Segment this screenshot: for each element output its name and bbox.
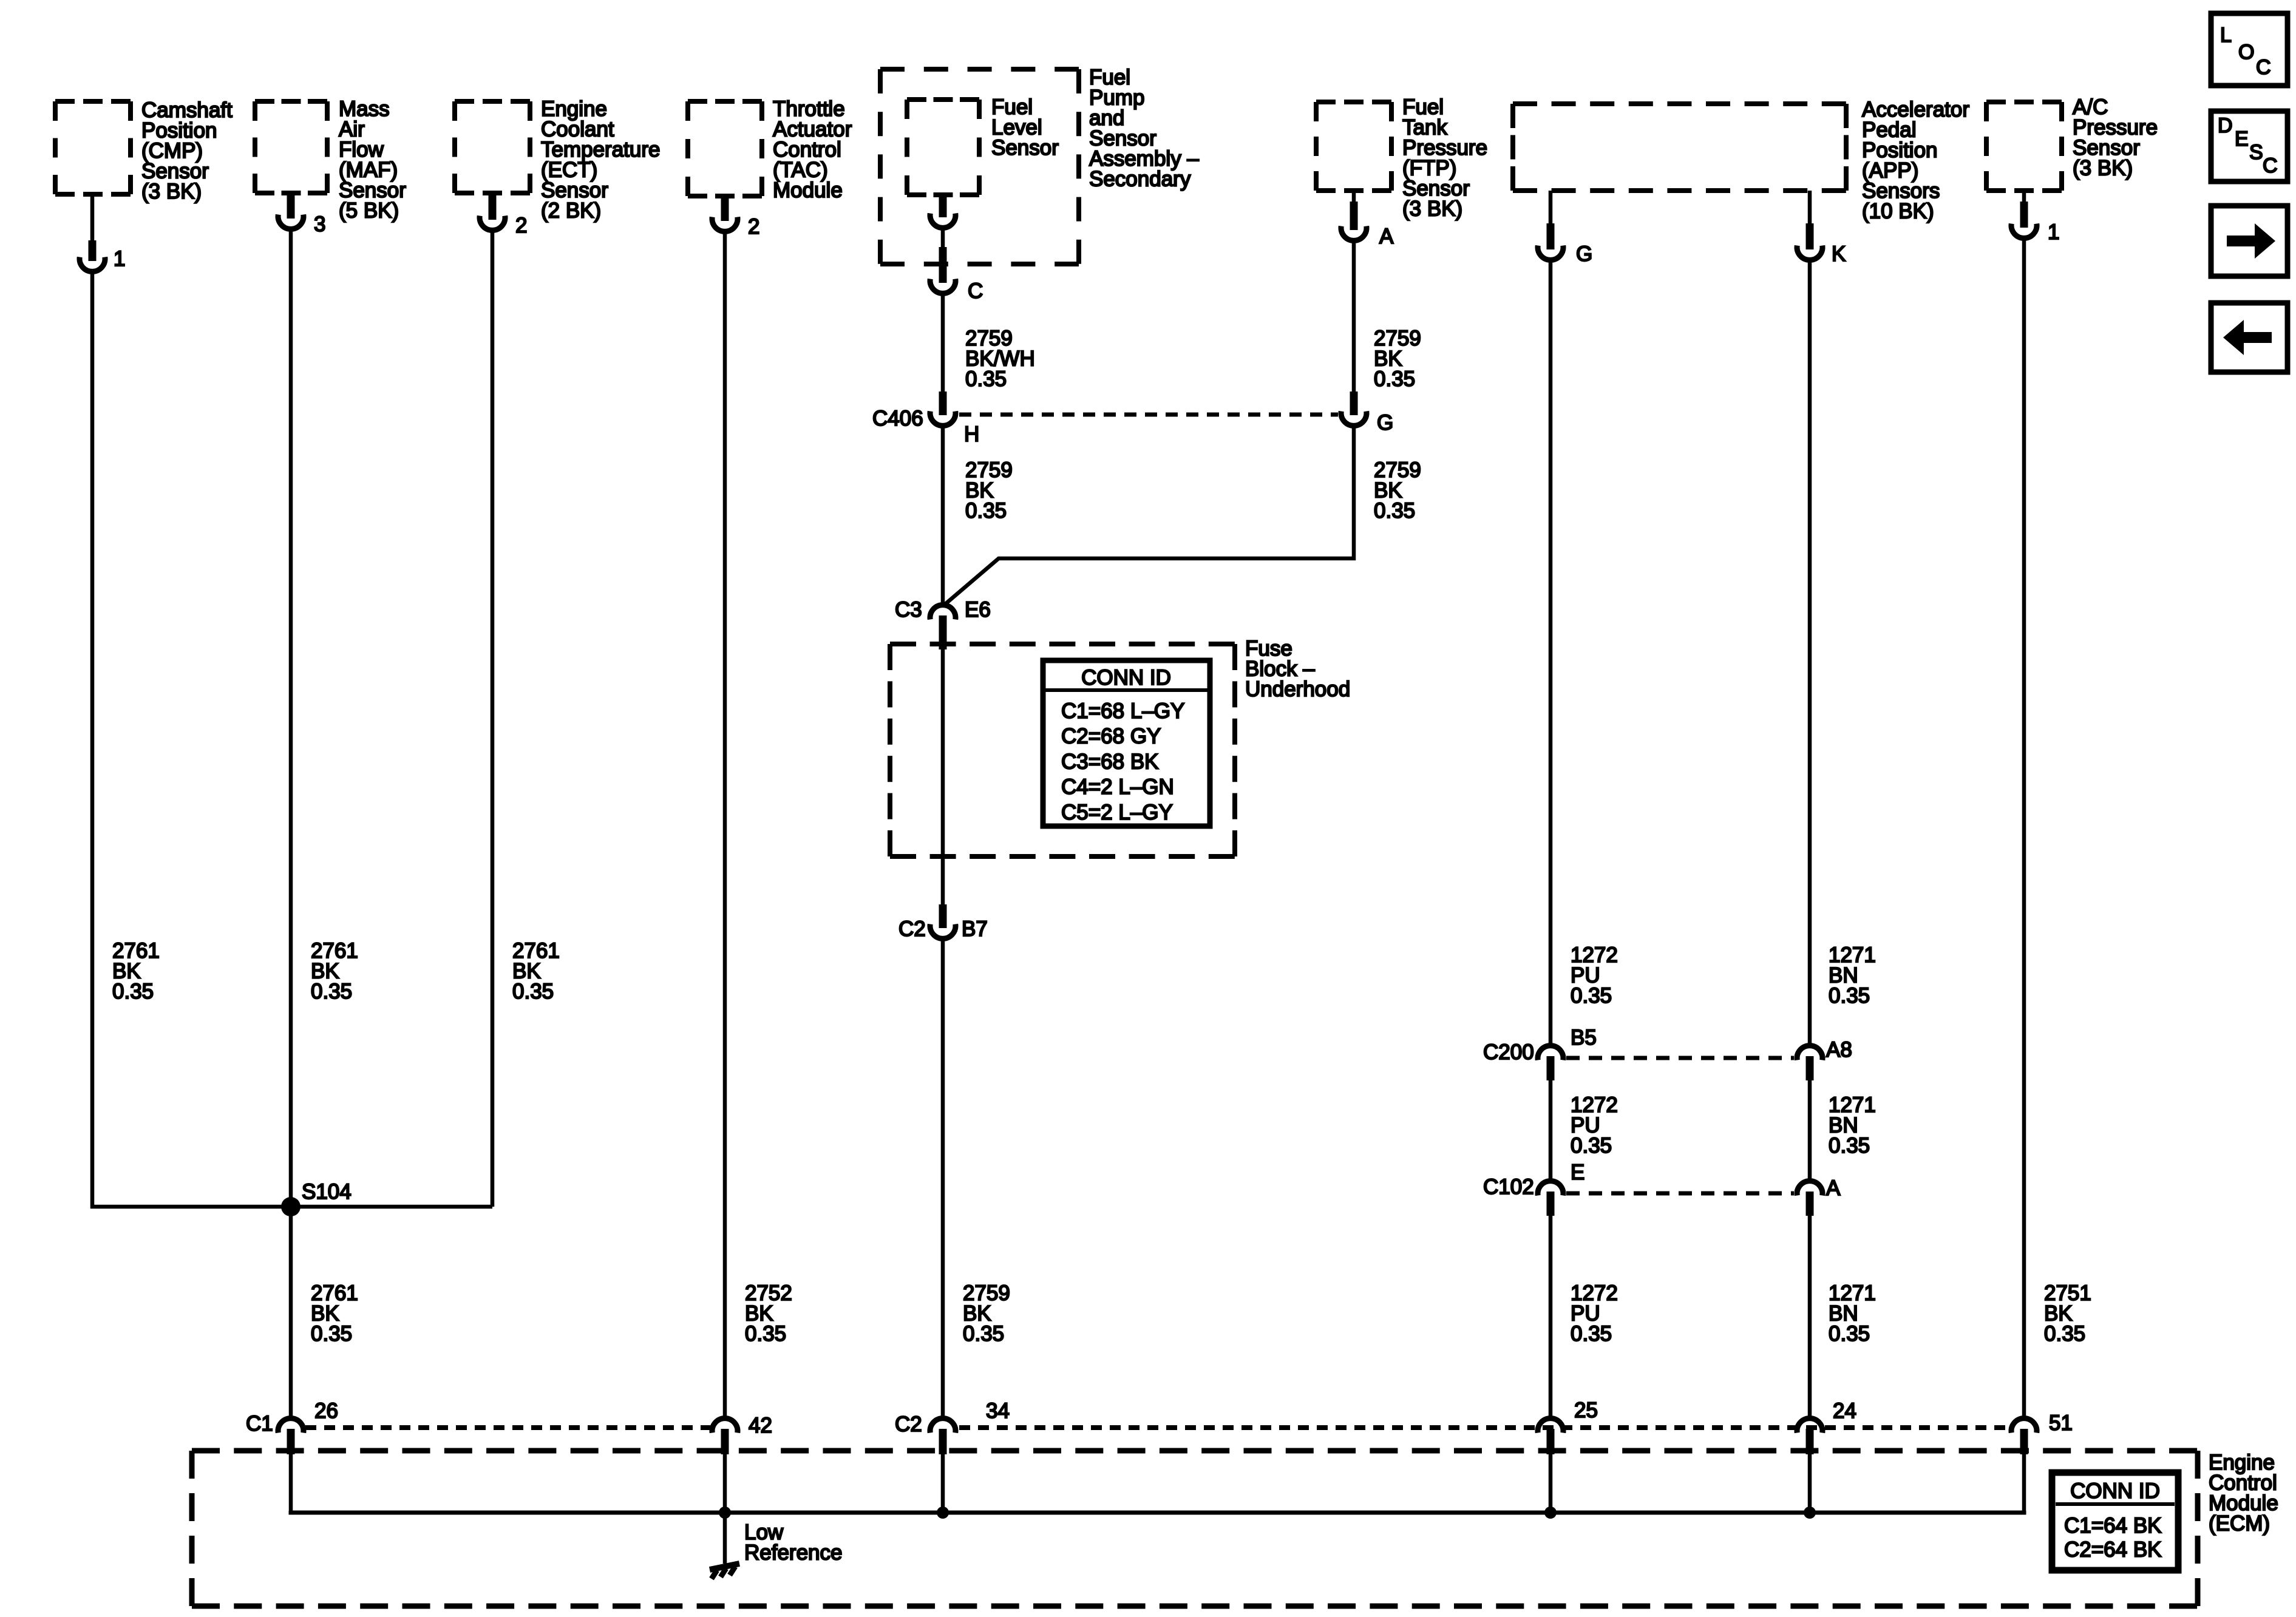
- inline connector line C1 (dotted, ECM): [305, 1425, 710, 1430]
- label: A/C Pressure Sensor (3 BK): [2073, 95, 2158, 180]
- wire label: 2759 BK 0.35 (below C406 G): [1374, 458, 1421, 523]
- pin number 2 (ECT): [515, 214, 527, 237]
- svg-text:34: 34: [986, 1399, 1010, 1423]
- wire: 2759 BK/WH from pin C to C406 pin H: [941, 294, 945, 394]
- svg-text:A: A: [1379, 225, 1394, 248]
- svg-text:0.35: 0.35: [963, 1322, 1004, 1346]
- svg-text:0.35: 0.35: [311, 1322, 352, 1346]
- wire: 1272 PU from C200 to C102 (G lane): [1549, 1080, 1553, 1182]
- connector C200 pin B5 terminal: [1538, 1046, 1563, 1080]
- label: Engine Coolant Temperature (ECT) Sensor (2 BK): [541, 97, 660, 223]
- svg-text:Underhood: Underhood: [1245, 677, 1350, 701]
- wire: 1271 BN from C102 to ECM pin 24: [1808, 1216, 1812, 1419]
- connector terminal: APP pin G: [1538, 191, 1563, 260]
- wire label: 2761 BK 0.35 (CMP upper): [112, 939, 160, 1003]
- svg-text:C: C: [968, 279, 983, 303]
- svg-text:0.35: 0.35: [1374, 367, 1415, 391]
- connector terminal: ECM C2 pin 51: [2011, 1419, 2037, 1454]
- svg-text:C2=64 BK: C2=64 BK: [2064, 1538, 2162, 1562]
- svg-text:0.35: 0.35: [1829, 984, 1870, 1008]
- connector C406 pin H terminal: [930, 392, 956, 425]
- svg-text:1: 1: [2048, 220, 2059, 244]
- svg-text:0.35: 0.35: [512, 980, 554, 1003]
- svg-text:2: 2: [515, 214, 527, 237]
- wire: 2761 BK from MAF pin 3 through S104 to ECM pin 26: [289, 229, 293, 1419]
- svg-text:Reference: Reference: [744, 1541, 842, 1565]
- svg-text:C200: C200: [1483, 1040, 1534, 1064]
- pin number 1 (CMP): [114, 247, 125, 271]
- wire label: 1272 PU 0.35 (middle): [1571, 1093, 1618, 1158]
- junction dot: bus at pin 34 lane: [937, 1507, 949, 1519]
- connector terminal: ECM C2 pin 25: [1538, 1419, 1563, 1454]
- pin letter G (APP): [1576, 242, 1592, 266]
- svg-text:24: 24: [1833, 1399, 1856, 1423]
- component box: Fuse Block - Underhood: [890, 644, 1235, 856]
- pin letter K (APP): [1832, 242, 1846, 266]
- wire label: 2759 BK 0.35 (lower): [963, 1281, 1010, 1346]
- wire: 2761 BK from ECT pin 2 to splice S104: [491, 231, 495, 1207]
- wire: 2761 BK from CMP pin 1 to splice S104: [92, 272, 492, 1207]
- svg-text:H: H: [964, 422, 979, 446]
- icon box: DESC: [2211, 111, 2288, 181]
- wire: 1272 PU from APP G to C200 B5: [1549, 260, 1553, 1047]
- junction dot: bus at pin 25 lane: [1544, 1507, 1557, 1519]
- wire: 1272 PU from C102 to ECM pin 25: [1549, 1216, 1553, 1419]
- wire label: 1271 BN 0.35 (lower): [1829, 1281, 1876, 1346]
- label: C200: [1483, 1040, 1534, 1064]
- label: C1 (ECM): [246, 1412, 273, 1436]
- wire: ECM pin 42 to internal bus: [723, 1454, 727, 1513]
- wire label: 2751 BK 0.35: [2044, 1281, 2091, 1346]
- label: S104: [302, 1180, 352, 1204]
- label: Fuse Block - Underhood: [1245, 637, 1350, 701]
- wire label: 2761 BK 0.35 (ECT upper): [512, 939, 560, 1003]
- table: fuse block CONN ID box: [1043, 660, 1210, 826]
- label: Throttle Actuator Control (TAC) Module: [773, 97, 852, 202]
- svg-text:(2 BK): (2 BK): [541, 199, 601, 223]
- connector terminal: TAC pin 2: [712, 197, 738, 231]
- pin letter C (assembly): [968, 279, 983, 303]
- svg-text:0.35: 0.35: [1571, 1322, 1612, 1346]
- svg-text:0.35: 0.35: [965, 499, 1007, 523]
- connector terminal: ECM C2 pin 34: [930, 1419, 956, 1454]
- svg-text:C1=68 L–GY: C1=68 L–GY: [1061, 699, 1184, 723]
- splice S104 junction dot: [281, 1197, 301, 1216]
- svg-text:C5=2 L–GY: C5=2 L–GY: [1061, 801, 1173, 824]
- pin E6 (fuse block): [965, 598, 991, 622]
- connector terminal: ECM C1 pin 42: [712, 1419, 738, 1454]
- label: C2 (ECM): [895, 1412, 922, 1436]
- svg-text:(3 BK): (3 BK): [141, 180, 202, 203]
- pin E (C102): [1571, 1161, 1584, 1184]
- svg-text:B5: B5: [1571, 1026, 1597, 1049]
- svg-text:(3 BK): (3 BK): [1402, 197, 1462, 221]
- svg-text:O: O: [2238, 41, 2254, 64]
- wire label: 1272 PU 0.35 (upper): [1571, 943, 1618, 1008]
- svg-text:0.35: 0.35: [311, 980, 352, 1003]
- inline connector line C200 (dashed): [1566, 1056, 1794, 1060]
- wire: fuel level sensor to assembly connector C: [941, 228, 945, 247]
- svg-text:26: 26: [314, 1399, 338, 1423]
- component box: Engine Coolant Temperature (ECT) Sensor: [455, 101, 530, 193]
- wire: 1271 BN from APP K to C200 A8: [1808, 260, 1812, 1047]
- pin letter A (FTP): [1379, 225, 1394, 248]
- svg-text:CONN ID: CONN ID: [1081, 666, 1171, 690]
- svg-text:0.35: 0.35: [112, 980, 154, 1003]
- svg-text:S: S: [2249, 141, 2263, 164]
- pin number 24 (ECM): [1833, 1399, 1856, 1423]
- table header: CONN ID (fuse block): [1081, 666, 1171, 690]
- wire: 2752 BK from TAC pin 2 to ECM pin 42: [723, 232, 727, 1419]
- connector terminal: A/C pressure sensor pin 1: [2011, 191, 2037, 238]
- table: ECM CONN ID box: [2052, 1473, 2178, 1570]
- label: Fuel Level Sensor: [991, 95, 1059, 160]
- svg-text:0.35: 0.35: [1571, 984, 1612, 1008]
- svg-text:0.35: 0.35: [965, 367, 1007, 391]
- label: Fuel Tank Pressure (FTP) Sensor (3 BK): [1402, 95, 1487, 221]
- wire: ECM pin 24 to internal bus: [1808, 1454, 1812, 1513]
- component box: Fuel Level Sensor (inner): [907, 100, 979, 195]
- svg-text:0.35: 0.35: [1829, 1134, 1870, 1158]
- svg-text:E: E: [1571, 1161, 1584, 1184]
- svg-text:C1: C1: [246, 1412, 273, 1436]
- pin B5 (C200): [1571, 1026, 1597, 1049]
- inline connector line C2 (dotted, ECM): [959, 1425, 2009, 1430]
- icon box: back arrow: [2211, 303, 2288, 372]
- component box: Engine Control Module (ECM): [192, 1451, 2198, 1606]
- component box: Mass Air Flow (MAF) Sensor: [255, 101, 327, 193]
- component box: Throttle Actuator Control (TAC) Module: [688, 101, 762, 196]
- pin number 1 (A/C): [2048, 220, 2059, 244]
- wire label: 1272 PU 0.35 (lower): [1571, 1281, 1618, 1346]
- svg-text:42: 42: [749, 1414, 772, 1437]
- svg-text:K: K: [1832, 242, 1846, 266]
- icon box: LOC: [2211, 13, 2288, 86]
- connector terminal: MAF pin 3: [278, 194, 304, 229]
- pin A (C102): [1826, 1176, 1841, 1200]
- wire: ECM pin 34 to internal bus: [941, 1454, 945, 1513]
- wire label: 1271 BN 0.35 (middle): [1829, 1093, 1876, 1158]
- svg-text:C2=68 GY: C2=68 GY: [1061, 725, 1161, 748]
- svg-text:A8: A8: [1826, 1038, 1852, 1062]
- component box: Camshaft Position (CMP) Sensor: [55, 101, 131, 194]
- inline connector line C406 (dashed): [959, 413, 1338, 417]
- svg-text:0.35: 0.35: [1374, 499, 1415, 523]
- wire: 1271 BN from C200 to C102 (K lane): [1808, 1080, 1812, 1182]
- connector terminal: FTP pin A: [1341, 191, 1367, 240]
- pin A8 (C200): [1826, 1038, 1852, 1062]
- label: C2 (fuse block): [898, 917, 926, 941]
- svg-text:C406: C406: [872, 407, 923, 430]
- svg-text:E: E: [2235, 127, 2249, 151]
- connector terminal: ECT pin 2: [480, 194, 505, 230]
- pin number 3 (MAF): [314, 212, 325, 236]
- svg-text:C: C: [2263, 154, 2278, 177]
- wire label: 2759 BK/WH 0.35: [965, 327, 1035, 391]
- svg-text:D: D: [2218, 114, 2233, 137]
- svg-text:2: 2: [748, 215, 759, 239]
- svg-text:(5 BK): (5 BK): [339, 199, 399, 223]
- svg-text:3: 3: [314, 212, 325, 236]
- svg-text:(3 BK): (3 BK): [2073, 157, 2133, 180]
- svg-text:B7: B7: [962, 917, 988, 941]
- label: Fuel Pump and Sensor Assembly - Secondary: [1089, 66, 1199, 191]
- table rows: fuse block connector IDs: [1061, 699, 1184, 824]
- svg-text:C3: C3: [895, 598, 922, 622]
- wire label: 2759 BK 0.35 (below C406 H): [965, 458, 1013, 523]
- svg-text:E6: E6: [965, 598, 991, 622]
- label: Mass Air Flow (MAF) Sensor (5 BK): [339, 97, 406, 223]
- pin letter H (C406): [964, 422, 979, 446]
- svg-text:CONN ID: CONN ID: [2070, 1479, 2160, 1503]
- svg-text:S104: S104: [302, 1180, 352, 1204]
- connector C200 pin A8 terminal: [1797, 1046, 1822, 1080]
- svg-text:C1=64 BK: C1=64 BK: [2064, 1514, 2162, 1537]
- svg-text:C2: C2: [898, 917, 926, 941]
- wire label: 2759 BK 0.35 (FTP upper): [1374, 327, 1421, 391]
- wire label: 2752 BK 0.35 (TAC): [745, 1281, 792, 1346]
- wire: ECM low reference bus: [291, 1511, 2024, 1513]
- connector C102 pin E terminal: [1538, 1181, 1563, 1216]
- svg-text:C: C: [2256, 56, 2271, 79]
- svg-text:C4=2 L–GN: C4=2 L–GN: [1061, 775, 1174, 799]
- svg-text:(ECM): (ECM): [2209, 1512, 2270, 1536]
- label: C102: [1483, 1175, 1534, 1199]
- wire: bus to ground stub: [723, 1513, 727, 1564]
- connector terminal: fuel level sensor output: [930, 194, 956, 228]
- pin number 51 (ECM): [2049, 1411, 2073, 1435]
- wire: ECM pin 25 to internal bus: [1549, 1454, 1553, 1513]
- wire: 2751 BK from A/C sensor to ECM pin 51: [2022, 239, 2026, 1419]
- connector terminal: ECM C2 pin 24: [1797, 1419, 1822, 1454]
- wire: ECM pin 26 to internal bus: [289, 1454, 293, 1513]
- wire label: 2761 BK 0.35 (MAF upper): [311, 939, 358, 1003]
- svg-text:Secondary: Secondary: [1089, 168, 1191, 191]
- pin number 26 (ECM): [314, 1399, 338, 1423]
- connector terminal: fuse block C3 pin E6: [930, 605, 956, 649]
- connector terminal: fuse block C2 pin B7: [930, 904, 956, 938]
- label: C3 (fuse block): [895, 598, 922, 622]
- svg-text:L: L: [2220, 24, 2232, 47]
- junction dot: bus at pin 24 lane: [1804, 1507, 1816, 1519]
- junction dot: bus at pin 42 lane: [719, 1507, 731, 1519]
- wire: ECM pin 51 to internal bus: [2022, 1454, 2026, 1513]
- label: C406: [872, 407, 923, 430]
- connector C102 pin A terminal: [1797, 1181, 1822, 1216]
- table header: CONN ID (ECM): [2070, 1479, 2160, 1503]
- svg-text:0.35: 0.35: [745, 1322, 786, 1346]
- label: Low Reference: [744, 1520, 842, 1565]
- component box: Fuel Tank Pressure (FTP) Sensor: [1316, 102, 1391, 191]
- label: Camshaft Position (CMP) Sensor (3 BK): [141, 98, 233, 203]
- label: Engine Control Module (ECM): [2209, 1451, 2278, 1536]
- pin number 2 (TAC): [748, 215, 759, 239]
- pin number 34 (ECM): [986, 1399, 1010, 1423]
- svg-text:Module: Module: [773, 178, 843, 202]
- svg-text:C3=68 BK: C3=68 BK: [1061, 750, 1159, 773]
- svg-text:Sensor: Sensor: [991, 136, 1059, 160]
- pin letter G (C406): [1377, 411, 1393, 435]
- pin number 25 (ECM): [1574, 1398, 1598, 1422]
- component box: Fuel Pump and Sensor Assembly - Secondary (outer): [880, 69, 1079, 264]
- svg-text:0.35: 0.35: [1829, 1322, 1870, 1346]
- svg-text:G: G: [1377, 411, 1393, 435]
- wire: 2759 BK from fuse block C2 B7 to ECM pin 34: [941, 939, 945, 1419]
- ground symbol (chassis ground): [710, 1564, 739, 1579]
- connector terminal: CMP pin 1: [80, 194, 105, 271]
- icon box: forward arrow: [2211, 206, 2288, 276]
- connector terminal: ECM C1 pin 26: [278, 1419, 304, 1454]
- pin number 42 (ECM): [749, 1414, 772, 1437]
- pin B7 (fuse block): [962, 917, 988, 941]
- svg-text:51: 51: [2049, 1411, 2073, 1435]
- connector terminal: APP pin K: [1797, 191, 1822, 260]
- connector terminal: assembly pin C: [930, 247, 956, 293]
- wire: 2759 BK inside fuse block from C3 to C2: [941, 630, 945, 906]
- svg-text:1: 1: [114, 247, 125, 271]
- svg-text:(10 BK): (10 BK): [1862, 200, 1934, 223]
- wire: 2759 BK from C406 H to fuse block C3 E6: [941, 426, 945, 606]
- wire label: 1271 BN 0.35 (upper): [1829, 943, 1876, 1008]
- wire: 2759 BK from FTP pin A to C406 pin G: [1352, 241, 1356, 394]
- wire: 2759 BK from C406 G to fuse block C3 E6: [945, 426, 1354, 605]
- svg-text:C2: C2: [895, 1412, 922, 1436]
- component box: Accelerator Pedal Position (APP) Sensors: [1513, 104, 1846, 191]
- svg-text:C102: C102: [1483, 1175, 1534, 1199]
- component box: A/C Pressure Sensor: [1986, 102, 2062, 191]
- inline connector line C102 (dashed): [1566, 1192, 1794, 1196]
- svg-text:0.35: 0.35: [2044, 1322, 2085, 1346]
- svg-text:25: 25: [1574, 1398, 1598, 1422]
- svg-text:G: G: [1576, 242, 1592, 266]
- label: Accelerator Pedal Position (APP) Sensors (10 BK): [1862, 98, 1969, 223]
- connector C406 pin G terminal: [1341, 392, 1367, 425]
- wire label: 2761 BK 0.35 (below S104): [311, 1281, 358, 1346]
- svg-text:0.35: 0.35: [1571, 1134, 1612, 1158]
- svg-text:A: A: [1826, 1176, 1841, 1200]
- table rows: ECM connector IDs: [2064, 1514, 2162, 1562]
